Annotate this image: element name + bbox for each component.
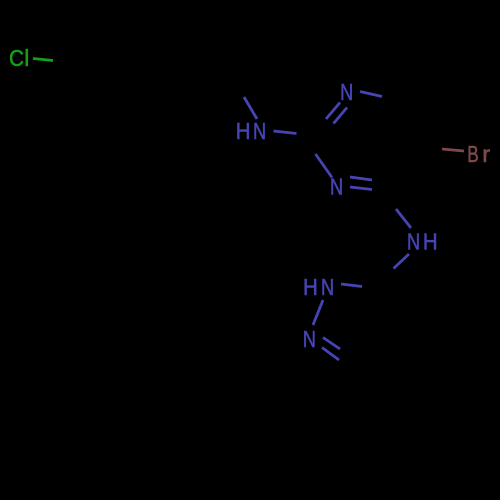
bond C4-NH <box>396 209 411 228</box>
svg-text:C: C <box>9 45 24 71</box>
double bond N3=C4 bottom line <box>350 187 372 190</box>
double bond N3=C4 top line <box>350 177 372 180</box>
double bond N2=C3 lower line <box>322 348 339 361</box>
svg-text:N: N <box>321 274 334 300</box>
bond Cl-C1(aryl) <box>33 59 53 61</box>
svg-text:N: N <box>340 79 353 105</box>
svg-text:H: H <box>236 118 251 144</box>
atom label Br (bromine) <box>467 141 490 167</box>
bond C5-Br <box>442 149 464 151</box>
double bond N2=C3 upper line <box>323 338 340 350</box>
bond NH-C5(pyrazole) <box>394 254 410 269</box>
bond NH-C2(pyrimidine) <box>274 131 297 134</box>
svg-text:N: N <box>303 326 316 352</box>
svg-text:H: H <box>423 228 438 254</box>
double bond N1=C2 outer line <box>326 103 340 120</box>
svg-text:H: H <box>303 274 318 300</box>
bond N1-C5 (pyrazole) <box>341 284 362 287</box>
svg-text:r: r <box>482 141 490 167</box>
atom label Cl (chlorine) <box>9 45 29 71</box>
atom label NH (C4 exocyclic amine) <box>407 228 438 254</box>
atom label HN (pyrazole N1-H) <box>303 274 334 300</box>
svg-text:N: N <box>407 228 420 254</box>
bond CH2-NH <box>244 97 257 119</box>
svg-text:N: N <box>253 118 266 144</box>
bond N1-N2 (pyrazole) <box>313 300 323 325</box>
bond N3-C2 <box>316 154 333 178</box>
bond N1-C6 <box>360 92 382 97</box>
double bond N1=C2 inner line <box>334 108 348 124</box>
svg-text:B: B <box>467 141 478 167</box>
atom label HN (benzylic amine N) <box>236 118 266 144</box>
svg-text:l: l <box>24 45 29 71</box>
